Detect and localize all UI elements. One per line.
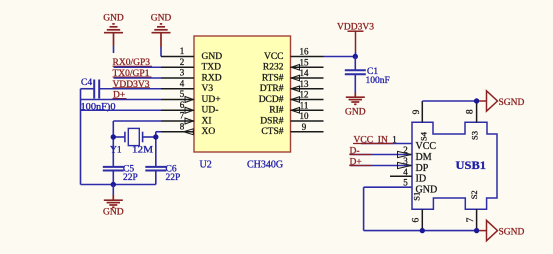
U2 pin 6 [161,109,194,111]
U2 right pin numbers [300,47,310,132]
wire pin5 ground down [363,187,365,230]
svg-text:S4: S4 [419,131,429,141]
svg-text:GND: GND [151,14,172,24]
capacitor C5 [103,166,124,168]
svg-text:UD+: UD+ [202,95,221,105]
svg-text:S3: S3 [469,131,479,140]
svg-text:22P: 22P [166,173,181,183]
wire D+ to pin5 [81,99,162,101]
U2 pin arrows RI# [291,108,299,114]
U2 pin 13 [291,88,324,90]
svg-text:VCC: VCC [416,141,437,152]
svg-text:DTR#: DTR# [260,84,284,94]
ground GND3 (bottom left) [112,185,114,196]
USB1 pin 2 arrow [398,151,412,157]
svg-text:DM: DM [416,152,432,163]
svg-text:R232: R232 [263,63,284,73]
svg-text:12: 12 [300,90,309,100]
USB1 pin 7 [476,209,478,230]
svg-text:TXD: TXD [202,63,222,73]
power SGND (bottom) [479,230,487,232]
U2 left pin names [202,52,223,137]
svg-text:16: 16 [300,47,310,57]
wire (GND1 stub) [113,46,115,53]
U2 pin 12 [291,99,324,101]
svg-text:10: 10 [300,111,310,121]
wire XI net [113,120,161,122]
capacitor C4 [81,88,95,90]
node junction top SGND [474,98,479,103]
wire shield top [422,100,476,102]
node junction pin6 [420,228,425,233]
node junction XI-crystal [111,134,116,139]
USB1 pin 2 wire [350,154,412,156]
USB1 pin 1 wire [361,143,412,145]
svg-text:11: 11 [300,100,309,110]
U2 right pin names [259,52,284,137]
U2 left pin numbers [180,46,185,131]
U2 pin arrows UD- [185,107,193,113]
svg-text:1: 1 [392,134,397,144]
svg-text:XO: XO [202,127,216,137]
svg-text:3: 3 [180,68,185,78]
svg-text:CH340G: CH340G [247,160,283,171]
ground GND2 (above U2 pin 1) [152,24,171,47]
U2 pin arrows UD+ [185,97,193,103]
wire (GND2 to pin1) [160,47,162,57]
wire UD- to pin6 [81,109,162,111]
svg-text:GND: GND [103,208,124,218]
U2 pin arrows R232 [291,65,299,71]
USB1 pin 9 [421,101,423,122]
svg-text:7: 7 [180,111,185,121]
svg-text:SGND: SGND [499,98,525,108]
svg-text:UD-: UD- [202,106,219,116]
USB1 pin names [416,141,438,196]
svg-text:4: 4 [180,78,185,88]
U2 pin 4 [161,88,194,90]
svg-text:2: 2 [180,57,185,67]
U2 pin arrows DCD# [291,97,299,103]
svg-text:S2: S2 [469,190,479,199]
U2 pin 15 [291,66,324,68]
svg-text:CTS#: CTS# [261,127,283,137]
svg-text:RTS#: RTS# [262,73,284,83]
svg-text:12M: 12M [132,145,154,155]
U2 pin 11 [291,109,324,111]
U2 pin 10 [291,120,324,122]
svg-text:22P: 22P [123,173,138,183]
U2 pin 8 [161,131,194,133]
svg-text:1: 1 [180,46,185,56]
svg-text:15: 15 [300,57,310,67]
U2 pin 5 [161,99,194,101]
wire bottom shield rail [364,230,477,232]
svg-text:V3: V3 [202,84,214,94]
wire VDD3V3 to pin4 [99,88,161,90]
USB1 shield labels [412,131,480,201]
U2 pin arrows RTS# [291,75,299,81]
svg-text:DP: DP [416,163,429,174]
U2 pin 14 [291,77,324,79]
svg-text:5: 5 [180,89,185,99]
svg-text:DSR#: DSR# [260,116,283,126]
svg-text:ID: ID [416,174,427,185]
svg-text:8: 8 [180,121,185,131]
node junction XO-crystal [153,134,158,139]
ground GND4 (below C1) [346,93,365,105]
svg-text:14: 14 [300,68,310,78]
U2 pin arrows XI [185,118,193,124]
U2 pin 2 [161,66,194,68]
svg-text:100nF)0: 100nF)0 [81,102,116,113]
svg-text:8: 8 [465,109,475,114]
svg-text:SGND: SGND [499,227,525,237]
IC U2 body (CH340G) [194,36,291,152]
svg-text:7: 7 [466,217,476,222]
capacitor C6 [145,166,166,168]
node junction bottom [111,182,116,187]
svg-text:USB1: USB1 [456,160,487,172]
svg-text:GND: GND [202,52,223,62]
svg-text:GND: GND [103,14,124,24]
svg-text:S1: S1 [412,192,422,201]
svg-text:RI#: RI# [269,106,284,116]
svg-text:100nF: 100nF [366,76,390,86]
svg-text:6: 6 [180,100,185,110]
node junction VDD3V3 [353,54,358,59]
svg-text:6: 6 [412,217,422,222]
USB1 pin 8 [476,101,478,122]
svg-text:9: 9 [302,122,307,132]
wire bottom rail [81,184,156,186]
U2 pin 7 [161,120,194,122]
svg-text:Y1: Y1 [110,145,122,155]
svg-text:VCC: VCC [264,52,284,62]
svg-text:RXD: RXD [202,73,222,83]
capacitor C1 [354,57,356,71]
svg-text:U2: U2 [200,160,212,171]
svg-text:XI: XI [202,116,212,126]
ground GND1 (top left power ground symbol) [104,24,123,46]
wire RX0/GP3 to pin2 [114,66,162,68]
U2 pin 3 [161,77,194,79]
U2 pin 9 [291,131,324,133]
svg-text:C4: C4 [81,78,92,88]
U2 pin arrows XO [184,129,194,135]
wire VCC pin16 to VDD3V3 [324,56,356,58]
U2 pin 16 [291,56,324,58]
wire XO net [156,131,161,133]
U2 pin arrows DTR# [291,86,299,92]
U2 pin 1 [161,56,194,58]
USB1 pin 3 wire [350,165,412,167]
USB1 pin 3 arrow [398,162,412,168]
wire C4 ground vertical [80,89,82,185]
svg-text:13: 13 [300,79,310,89]
USB1 pin 5 wire [364,186,412,188]
USB1 pin 6 [421,209,423,230]
svg-text:GND: GND [345,107,366,117]
svg-text:9: 9 [412,109,422,114]
USB1 pin 4 wire [390,175,412,177]
svg-text:DCD#: DCD# [259,95,284,105]
connector USB1 body [412,122,497,209]
wire TX0/GP1 to pin3 [114,77,162,79]
svg-text:5: 5 [403,178,408,188]
node junction bottom SGND [474,228,479,233]
crystal Y1 [113,136,125,138]
svg-text:4: 4 [403,167,408,177]
power SGND (top) [479,100,487,102]
